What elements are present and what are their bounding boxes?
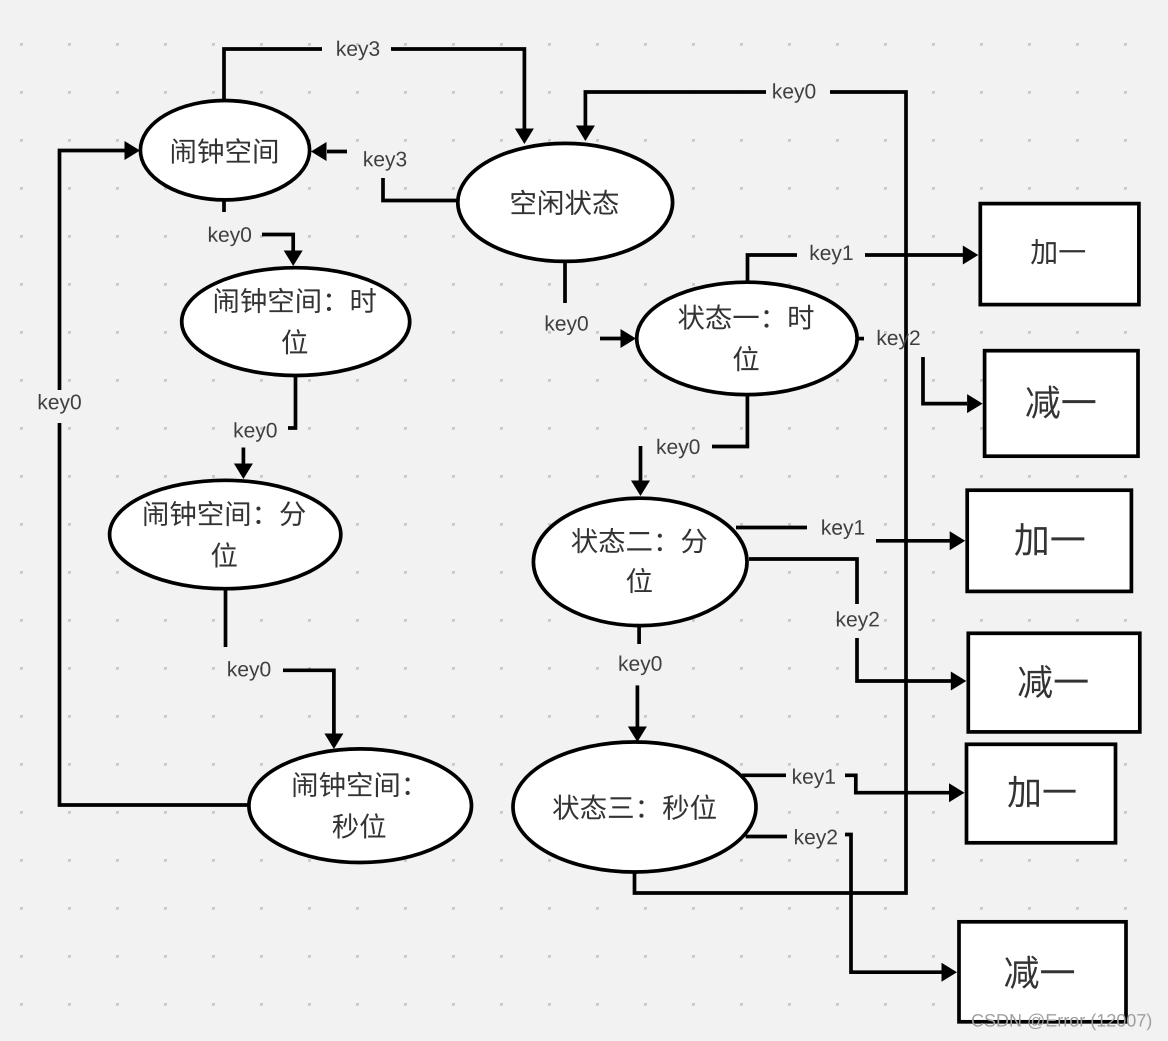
action box5: plus one (967, 744, 1116, 843)
state ellipse: alarm space hour digit (182, 268, 410, 376)
label key3 top (337, 41, 379, 61)
label key3 idle-to-alarm (364, 151, 406, 171)
label key2 state3 (795, 829, 837, 849)
watermark CSDN (972, 1014, 1151, 1031)
wire key1: state1 top to plus-one box1 (748, 246, 979, 284)
label key0 hour to min (235, 422, 277, 442)
label key1 state2 (822, 519, 864, 539)
wire key0: alarm-min bottom to alarm-sec top (226, 590, 344, 749)
wire key0: alarm-hour bottom to alarm-min top (234, 376, 296, 479)
wire key1: state3 right to plus-one box5 (742, 775, 965, 802)
state ellipse: alarm space second digit (249, 749, 472, 863)
label key0 min to sec (228, 661, 270, 681)
action box4: minus one (968, 633, 1140, 732)
state ellipse: alarm space (140, 101, 309, 200)
wire key0: idle-state bottom to state1 left (565, 262, 636, 348)
label key2 state2 (837, 611, 879, 631)
label key2 state1 (878, 330, 920, 350)
wire key3: idle-state left to alarm-space right (311, 142, 458, 201)
state ellipse: state1 hour digit (637, 282, 857, 394)
wire key0: alarm-sec left loop to alarm-space left (60, 141, 251, 805)
label key1 state3 (793, 768, 835, 788)
wire key2: state2 right to minus-one box4 (749, 559, 966, 691)
wire key2: state1 right to minus-one box2 (857, 339, 983, 414)
action box2: minus one (985, 351, 1138, 457)
state ellipse: state3 second digit (513, 742, 756, 872)
label key0 idle to state1 (546, 315, 588, 335)
action box6: minus one (959, 922, 1126, 1022)
action box1: plus one (980, 204, 1139, 305)
label key0 alarm to hour (209, 227, 251, 247)
label key0 state2 to state3 (619, 655, 661, 675)
state ellipse: idle state (458, 143, 673, 261)
state ellipse: state2 minute digit (533, 498, 747, 625)
label key1 state1 (811, 245, 853, 265)
wire key2: state3 right to minus-one box6 (746, 835, 957, 982)
wire key1: state2 right to plus-one box3 (736, 528, 965, 551)
label key0 state3 loop (773, 83, 815, 103)
action box3: plus one (967, 490, 1131, 591)
wire key0: state2 bottom to state3 top (628, 626, 647, 742)
wire key0: alarm-space bottom to alarm-hour top (224, 201, 303, 266)
state ellipse: alarm space minute digit (110, 480, 341, 588)
label key0 sec loop (39, 394, 81, 414)
wire key3: alarm-space top to idle-state top (224, 49, 534, 144)
wire key0: state1 bottom to state2 top (631, 394, 747, 496)
label key0 state1 to state2 (657, 439, 699, 459)
wire key0: state3 bottom loop to idle-state top (576, 92, 906, 893)
